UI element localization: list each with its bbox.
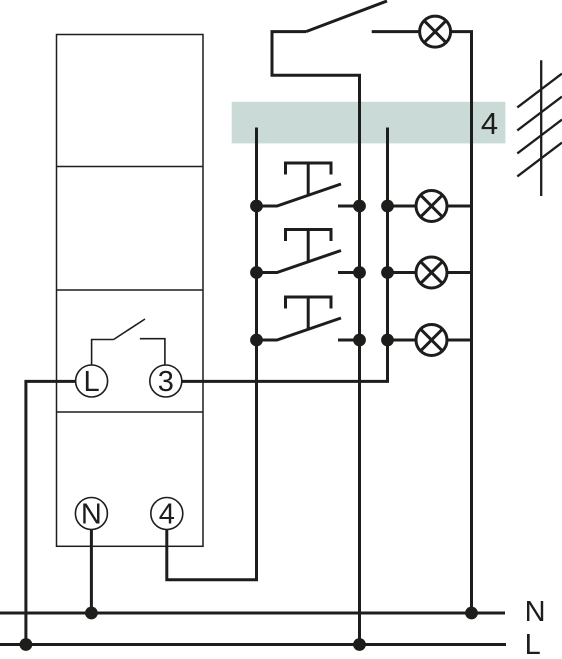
wire: lamp E2 to N riser bbox=[447, 205, 472, 208]
svg-text:N: N bbox=[81, 499, 102, 531]
lamp E3 bbox=[416, 257, 447, 288]
junction dot N wire on N bus bbox=[85, 607, 98, 620]
wire from terminal L to L bus bbox=[26, 381, 76, 644]
svg-text:4: 4 bbox=[481, 106, 498, 141]
wire: lamp E1 to N riser bbox=[450, 32, 471, 613]
svg-text:L: L bbox=[525, 629, 541, 659]
switch S0 blade (top) bbox=[306, 1, 387, 32]
lamp E1 bbox=[420, 16, 451, 47]
terminal N bbox=[75, 498, 107, 531]
junction dots push-button rows bbox=[250, 200, 394, 347]
terminal 4 bbox=[151, 498, 183, 531]
wire: lamp feed row 3 bbox=[388, 339, 417, 342]
wire from terminal N to N bus bbox=[90, 530, 93, 613]
wire: lamp feed row 2 bbox=[388, 271, 417, 274]
push-button S2 bbox=[257, 230, 362, 273]
junction dot L riser on L bus bbox=[353, 638, 366, 651]
L bus wire bbox=[0, 643, 506, 646]
wire: top switch fixed contact to lamp E1 bbox=[372, 30, 419, 33]
junction dot L wire on L bus bbox=[20, 638, 33, 651]
cable symbol: 4-core slash marks bbox=[517, 60, 562, 196]
lamp E4 bbox=[416, 325, 447, 356]
wire: L riser with top switch feed bbox=[272, 32, 360, 645]
push-button S1 bbox=[257, 163, 362, 206]
terminal 3 bbox=[150, 365, 182, 398]
wire: lamp E4 to N riser bbox=[447, 339, 472, 342]
svg-text:N: N bbox=[525, 596, 546, 628]
internal relay contact between L and 3 bbox=[92, 319, 165, 365]
lamp E2 bbox=[416, 191, 447, 222]
push-button S3 bbox=[257, 297, 362, 340]
highlight band net 4 bbox=[232, 102, 506, 144]
wire from terminal 4 to push-button column bbox=[167, 128, 257, 580]
svg-text:4: 4 bbox=[159, 499, 175, 531]
svg-text:L: L bbox=[84, 366, 100, 398]
wire: lamp E3 to N riser bbox=[447, 271, 472, 274]
terminal L bbox=[76, 365, 108, 398]
wire: lamp feed row 1 bbox=[388, 205, 417, 208]
wire from terminal 3 up to lamp feed column bbox=[182, 128, 388, 382]
device box bbox=[57, 35, 204, 547]
N bus wire bbox=[0, 612, 505, 615]
junction dot N riser on N bus bbox=[465, 607, 478, 620]
svg-text:3: 3 bbox=[158, 366, 174, 398]
